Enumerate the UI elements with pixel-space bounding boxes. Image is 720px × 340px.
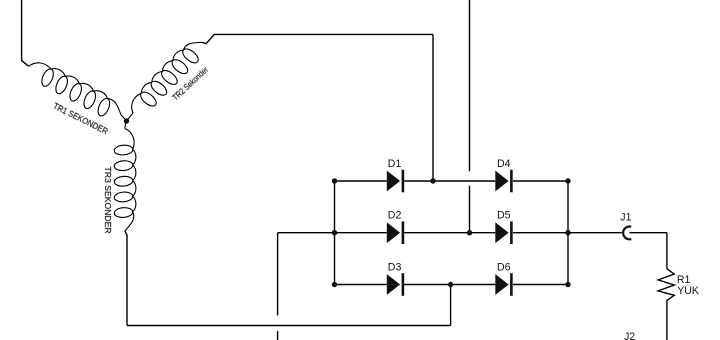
inductor TR1 secondary winding bbox=[29, 63, 121, 116]
junction row1 mid bbox=[430, 178, 435, 183]
wire row3 left segment bbox=[335, 284, 387, 286]
wire down to R1 bbox=[666, 233, 668, 269]
wire left bus bbox=[334, 181, 336, 285]
svg-text:D2: D2 bbox=[388, 210, 402, 222]
svg-text:R1: R1 bbox=[677, 274, 691, 286]
wire horizontal top to bridge bbox=[214, 33, 433, 35]
wire J1 to corner bbox=[630, 232, 667, 234]
wire row2 left segment bbox=[335, 232, 387, 234]
wire row1 left segment bbox=[335, 180, 387, 182]
svg-text:J1: J1 bbox=[620, 211, 631, 223]
wire center vertical x=469.5 from top (hop over row1) bbox=[469, 0, 471, 171]
svg-text:D1: D1 bbox=[388, 158, 402, 170]
wire row1 middle segment bbox=[404, 180, 495, 182]
junction bus-left row2 bbox=[332, 230, 337, 235]
wire x=469.5 below hop to row2 bbox=[469, 186, 471, 233]
wire row2 to J1 bbox=[568, 232, 622, 234]
svg-text:D3: D3 bbox=[388, 262, 402, 274]
diode D1 bbox=[387, 170, 404, 193]
diode D6 bbox=[495, 273, 512, 296]
inductor TR3 secondary winding bbox=[114, 129, 136, 232]
connector J1 bbox=[623, 227, 631, 240]
wire row2 left extension bbox=[278, 232, 335, 234]
wire star node into TR3 bbox=[125, 121, 127, 129]
wire TR2 lead from star node bbox=[127, 113, 134, 121]
resistor R1 bbox=[658, 269, 674, 301]
wire row2 middle segment bbox=[404, 232, 495, 234]
diode D5 bbox=[495, 221, 512, 244]
svg-text:TR3 SEKONDER: TR3 SEKONDER bbox=[103, 167, 113, 234]
wire right bus bbox=[567, 181, 569, 285]
wire TR3 bottom lead bbox=[125, 231, 127, 326]
wire up from bottom to row3 node bbox=[450, 285, 452, 326]
junction bus-right row1 bbox=[565, 178, 570, 183]
svg-text:D5: D5 bbox=[497, 210, 511, 222]
wire row2 drop below hop bbox=[277, 331, 279, 340]
wire row2 right segment bbox=[513, 232, 568, 234]
wire R1 to bottom edge bbox=[666, 300, 668, 340]
diode D3 bbox=[387, 273, 404, 296]
junction bus-left row3 bbox=[332, 282, 337, 287]
svg-text:D4: D4 bbox=[497, 158, 511, 170]
junction row3 mid bbox=[448, 282, 453, 287]
wire row2 drop (hop over bottom wire) bbox=[277, 233, 279, 316]
wire bottom horizontal bbox=[127, 325, 451, 327]
junction row2 mid bbox=[467, 230, 472, 235]
junction bus-left row1 bbox=[332, 178, 337, 183]
wire top-left vertical into TR1 bbox=[22, 0, 29, 66]
wire TR2 top jog bbox=[202, 34, 214, 43]
wire vertical x=433 down to row1 bbox=[432, 34, 434, 181]
diode D4 bbox=[495, 170, 512, 193]
wire row1 right segment bbox=[513, 180, 568, 182]
diode D2 bbox=[387, 221, 404, 244]
svg-text:D6: D6 bbox=[497, 262, 511, 274]
wire row3 right segment bbox=[513, 284, 568, 286]
wire row3 middle segment bbox=[404, 284, 495, 286]
wire TR1 end to star node bbox=[121, 115, 127, 121]
junction star node bbox=[124, 118, 129, 123]
inductor TR2 secondary winding bbox=[132, 42, 202, 113]
junction bus-right row2 bbox=[565, 230, 570, 235]
svg-text:J2: J2 bbox=[624, 331, 635, 340]
svg-text:YÜK: YÜK bbox=[677, 285, 699, 297]
junction bus-right row3 bbox=[565, 282, 570, 287]
